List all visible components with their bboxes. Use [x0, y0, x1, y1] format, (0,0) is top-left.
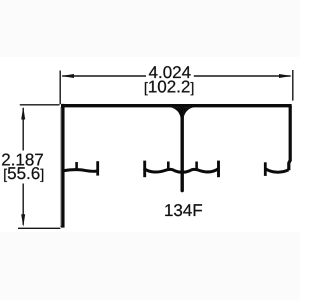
- top bar: [61, 104, 292, 107]
- top dim left ext line: [59, 71, 61, 105]
- dim text 2.187: [2, 154, 43, 166]
- right clip arm: [266, 169, 289, 172]
- left clip arm: [64, 170, 98, 172]
- left leg serrated: [60, 104, 65, 228]
- left clip end bar: [96, 161, 99, 175]
- arrow down of left dim: [21, 214, 25, 227]
- arrow left of top dim: [61, 74, 74, 78]
- right leg with jog: [289, 106, 290, 170]
- dim text [55.6]: [4, 167, 43, 182]
- top dim line right segment: [194, 75, 291, 77]
- dim text 4.024: [149, 66, 191, 78]
- crossbar tick right: [195, 162, 198, 171]
- part label 134F: [165, 204, 202, 216]
- arrow up of left dim: [21, 107, 25, 120]
- top dim right ext line: [292, 70, 294, 101]
- crossbar tick left: [167, 162, 170, 171]
- stem top fillet left: [170, 107, 181, 119]
- center crossbar wavy: [144, 168, 219, 172]
- arrow right of top dim: [279, 74, 292, 78]
- left clip tick: [75, 162, 78, 170]
- top dim line left segment: [62, 75, 146, 77]
- stem top fillet right: [184, 107, 195, 119]
- center stem: [180, 106, 183, 191]
- crossbar end bar right: [217, 161, 220, 178]
- right clip end bar: [264, 162, 267, 176]
- dim text [102.2]: [145, 81, 193, 96]
- crossbar end bar left: [143, 161, 146, 178]
- left dim line lower segment: [22, 184, 24, 225]
- left dim line upper segment: [22, 108, 24, 151]
- left dim bottom ext line: [18, 227, 60, 229]
- left dim top ext line: [20, 104, 60, 106]
